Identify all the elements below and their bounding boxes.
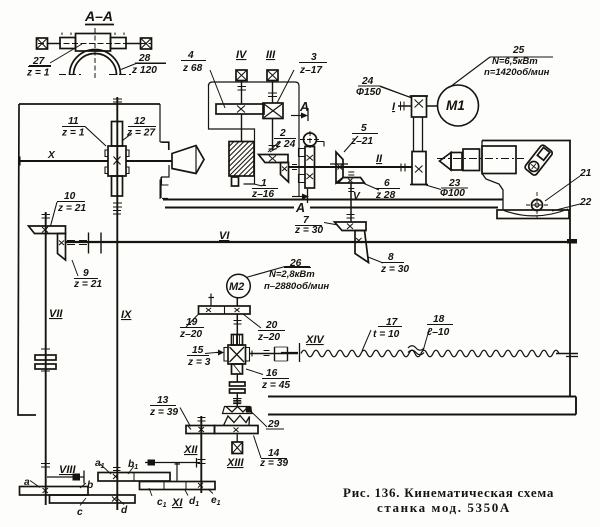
svg-text:п–2880об/мин: п–2880об/мин <box>264 281 329 292</box>
svg-text:c1: c1 <box>157 497 167 509</box>
svg-text:X: X <box>47 150 56 161</box>
svg-text:z = 30: z = 30 <box>294 225 323 236</box>
svg-text:XIII: XIII <box>226 457 244 469</box>
svg-text:18: 18 <box>433 314 445 325</box>
svg-text:a: a <box>24 477 30 488</box>
svg-text:А: А <box>295 201 305 215</box>
svg-text:станка мод. 5350А: станка мод. 5350А <box>377 500 511 515</box>
svg-text:VIII: VIII <box>59 464 76 476</box>
svg-text:5: 5 <box>361 123 367 134</box>
svg-text:z–20: z–20 <box>257 332 280 343</box>
svg-text:10: 10 <box>64 191 76 202</box>
svg-text:3: 3 <box>311 52 317 63</box>
svg-text:III: III <box>266 49 276 61</box>
svg-text:16: 16 <box>266 368 278 379</box>
svg-text:19: 19 <box>186 317 198 328</box>
svg-text:9: 9 <box>83 268 89 279</box>
svg-text:21: 21 <box>579 168 592 179</box>
svg-text:12: 12 <box>134 116 146 127</box>
svg-text:24: 24 <box>361 76 374 87</box>
svg-text:N=2,8кВт: N=2,8кВт <box>269 269 315 280</box>
svg-text:22: 22 <box>579 197 592 208</box>
svg-text:z = 1: z = 1 <box>26 68 50 79</box>
svg-text:z 68: z 68 <box>182 63 203 74</box>
svg-text:z–17: z–17 <box>299 65 323 76</box>
svg-text:XIV: XIV <box>305 334 325 346</box>
svg-text:d1: d1 <box>189 496 199 508</box>
svg-text:2: 2 <box>279 128 286 139</box>
svg-text:Ф100: Ф100 <box>440 188 465 199</box>
svg-text:А–А: А–А <box>84 8 113 24</box>
svg-text:1: 1 <box>261 178 267 189</box>
svg-text:IV: IV <box>236 49 248 61</box>
svg-text:М2: М2 <box>229 281 244 293</box>
svg-text:XI: XI <box>171 497 183 509</box>
svg-text:n=1420об/мин: n=1420об/мин <box>484 67 550 78</box>
svg-text:d: d <box>121 505 128 516</box>
svg-text:I: I <box>392 101 396 113</box>
svg-text:z = 45: z = 45 <box>261 380 290 391</box>
svg-text:b: b <box>87 480 93 491</box>
svg-text:29: 29 <box>267 419 280 430</box>
svg-text:VI: VI <box>219 230 230 242</box>
svg-text:e1: e1 <box>211 495 221 507</box>
svg-text:Рис. 136. Кинематическая схема: Рис. 136. Кинематическая схема <box>343 485 554 500</box>
svg-text:z–16: z–16 <box>251 189 274 200</box>
svg-text:II: II <box>376 153 383 165</box>
svg-text:4: 4 <box>187 50 194 61</box>
svg-text:28: 28 <box>138 53 151 64</box>
svg-text:z 28: z 28 <box>375 190 396 201</box>
svg-text:ℓ–10: ℓ–10 <box>427 327 450 338</box>
svg-text:c: c <box>77 507 83 518</box>
svg-text:z = 21: z = 21 <box>73 279 102 290</box>
svg-text:27: 27 <box>32 56 46 67</box>
svg-text:VII: VII <box>49 308 63 320</box>
svg-text:z = 39: z = 39 <box>149 407 178 418</box>
svg-text:z–21: z–21 <box>350 136 373 147</box>
svg-text:Ф150: Ф150 <box>356 87 381 98</box>
svg-text:z = 30: z = 30 <box>380 264 409 275</box>
svg-text:8: 8 <box>388 252 394 263</box>
svg-text:a1: a1 <box>95 458 105 470</box>
svg-text:13: 13 <box>157 395 169 406</box>
svg-text:z = 39: z = 39 <box>259 458 288 469</box>
svg-text:А: А <box>299 100 309 114</box>
svg-text:t = 10: t = 10 <box>373 329 400 340</box>
svg-text:z = 21: z = 21 <box>57 203 86 214</box>
svg-text:z = 1: z = 1 <box>61 128 85 139</box>
svg-text:z–20: z–20 <box>179 329 202 340</box>
svg-text:z = 3: z = 3 <box>187 357 211 368</box>
svg-text:20: 20 <box>265 320 278 331</box>
svg-text:IX: IX <box>121 309 132 321</box>
svg-text:11: 11 <box>68 116 79 127</box>
svg-text:z 120: z 120 <box>131 65 157 76</box>
svg-text:N=6,5кВт: N=6,5кВт <box>492 56 538 67</box>
svg-text:15: 15 <box>192 345 204 356</box>
svg-text:6: 6 <box>384 178 390 189</box>
svg-text:М1: М1 <box>446 98 465 113</box>
svg-text:b1: b1 <box>128 459 138 471</box>
svg-text:25: 25 <box>512 45 525 56</box>
svg-text:XII: XII <box>183 444 198 456</box>
svg-text:z = 27: z = 27 <box>126 128 156 139</box>
svg-text:z 24: z 24 <box>275 139 296 150</box>
